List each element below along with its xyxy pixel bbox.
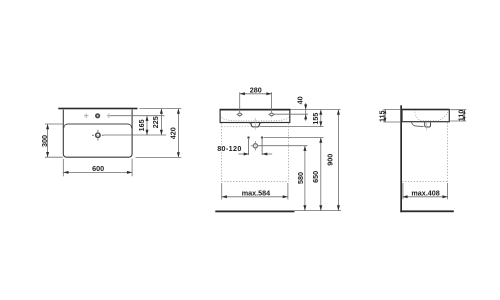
svg-text:80-120: 80-120 bbox=[217, 144, 241, 153]
svg-text:300: 300 bbox=[40, 135, 49, 147]
svg-text:max.408: max.408 bbox=[411, 189, 439, 198]
svg-text:40: 40 bbox=[296, 96, 305, 104]
svg-text:225: 225 bbox=[151, 116, 160, 128]
svg-text:650: 650 bbox=[311, 171, 320, 183]
svg-text:280: 280 bbox=[250, 86, 262, 95]
svg-text:155: 155 bbox=[311, 113, 320, 125]
svg-text:110: 110 bbox=[457, 110, 466, 122]
svg-text:max.584: max.584 bbox=[242, 189, 270, 198]
svg-text:165: 165 bbox=[137, 119, 146, 131]
svg-text:600: 600 bbox=[92, 164, 104, 173]
svg-text:420: 420 bbox=[169, 127, 178, 139]
svg-text:900: 900 bbox=[325, 154, 334, 166]
svg-text:115: 115 bbox=[378, 110, 387, 122]
svg-text:580: 580 bbox=[296, 172, 305, 184]
